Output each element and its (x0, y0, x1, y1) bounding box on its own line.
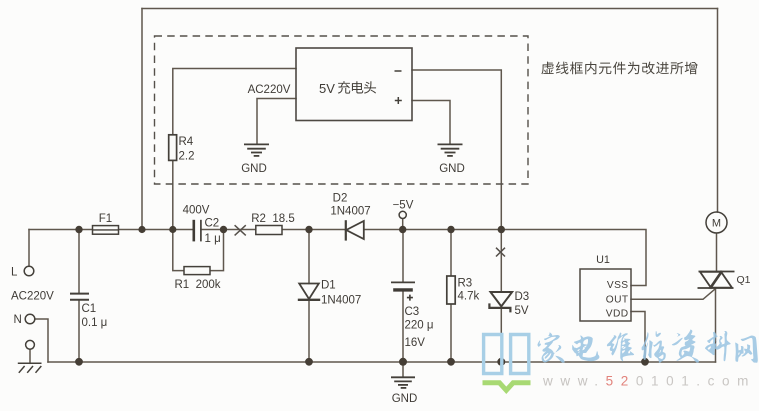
wire triac to bottom rail (715, 288, 717, 362)
wire -5V node drop (402, 219, 404, 229)
wire motor to triac (716, 233, 718, 271)
wire U1 VDD to bottom rail (631, 312, 645, 363)
ground GND1 (charger input side) (244, 144, 269, 156)
svg-text:R4: R4 (179, 136, 194, 148)
IC U1 (580, 269, 631, 321)
cut mark X1 (235, 225, 246, 235)
svg-text:U1: U1 (596, 254, 610, 266)
terminal N (25, 314, 35, 324)
resistor R2 (256, 226, 282, 235)
wire main AC rail (29, 229, 194, 231)
svg-text:N: N (14, 314, 22, 326)
wire D1 branch (308, 230, 310, 363)
wire charger AC220V gnd (257, 99, 296, 144)
resistor R3 (447, 276, 455, 304)
svg-text:C1: C1 (82, 303, 97, 315)
wire L terminal drop (28, 230, 30, 267)
svg-text:VDD: VDD (606, 308, 629, 319)
svg-text:0.1 μ: 0.1 μ (82, 317, 108, 329)
charger module U (5V charger) box (296, 48, 412, 121)
svg-text:D3: D3 (515, 291, 530, 303)
svg-text:D1: D1 (321, 280, 336, 292)
svg-text:OUT: OUT (606, 295, 629, 306)
wire outer loop right (717, 9, 719, 213)
wire C3 branch (402, 230, 404, 363)
capacitor C2 (193, 220, 196, 242)
wire R3 branch (450, 230, 452, 363)
svg-text:5V: 5V (515, 305, 529, 317)
svg-text:VSS: VSS (607, 280, 629, 291)
svg-text:1N4007: 1N4007 (321, 295, 361, 307)
resistor R1 (184, 267, 210, 275)
svg-text:C2: C2 (205, 217, 220, 229)
svg-text:F1: F1 (99, 213, 112, 225)
wire C1 branch (78, 230, 80, 363)
capacitor C1 (70, 294, 89, 300)
diode D1 (299, 284, 319, 300)
svg-text:5V: 5V (319, 81, 335, 96)
svg-text:Q1: Q1 (737, 274, 751, 286)
diode D2 (345, 220, 347, 240)
capacitor C3 (391, 281, 415, 283)
svg-text:GND: GND (392, 393, 418, 405)
svg-text:2.2: 2.2 (179, 150, 195, 162)
svg-text:16V: 16V (405, 337, 426, 349)
zener diode D3 (491, 292, 513, 306)
svg-text:1N4007: 1N4007 (330, 206, 370, 218)
watermark book icon (484, 335, 529, 374)
ground GND3 (391, 377, 415, 388)
svg-text:−5V: −5V (393, 199, 414, 211)
svg-text:R2 18.5: R2 18.5 (251, 213, 294, 225)
cut mark X2 (496, 248, 505, 257)
wire bottom rail (48, 361, 716, 363)
resistor R4 (169, 135, 177, 161)
terminal L (24, 266, 34, 276)
svg-text:GND: GND (241, 163, 267, 175)
svg-text:L: L (11, 267, 18, 279)
watermark text 家电维修资料网 (538, 329, 758, 362)
triac Q1 (698, 272, 735, 289)
wire charger minus output (412, 70, 501, 292)
svg-text:GND: GND (439, 163, 465, 175)
wire N terminal to bottom rail (35, 319, 48, 362)
wire R1 bypass loop (173, 230, 224, 271)
svg-text:1 μ: 1 μ (205, 233, 221, 245)
wire GND3 stub (402, 362, 404, 377)
note text 虚线框内元件为改进所增 (541, 62, 697, 75)
svg-text:D2: D2 (333, 193, 348, 205)
wire charger plus output (412, 101, 450, 144)
svg-text:4.7k: 4.7k (458, 291, 480, 303)
wire D3 lower branch (500, 308, 502, 362)
svg-text:www.520101.com: www.520101.com (542, 374, 756, 389)
svg-text:C3: C3 (405, 306, 420, 318)
motor M (706, 212, 727, 233)
wire main AC rail right of C2 (201, 230, 646, 286)
wire R4 to charger input (173, 69, 296, 230)
charger minus pin label (395, 70, 402, 72)
node -5V (399, 211, 406, 218)
svg-text:AC220V: AC220V (248, 84, 291, 96)
svg-text:R3: R3 (458, 277, 473, 289)
wire earth terminal drop (29, 350, 31, 364)
ground GND2 (charger output side) (438, 144, 463, 156)
watermark green swoosh (483, 383, 531, 391)
svg-text:400V: 400V (183, 205, 210, 217)
charger plus pin label (395, 97, 402, 104)
svg-text:AC220V: AC220V (11, 291, 54, 303)
fuse F1 (93, 226, 119, 235)
svg-text:M: M (712, 218, 721, 230)
earth ground symbol (18, 363, 42, 373)
charger box label 充电头 (338, 81, 376, 93)
dashed improvement box (155, 36, 529, 184)
terminal earth (26, 340, 35, 349)
wire U1 OUT to triac gate (631, 289, 715, 299)
svg-text:220 μ: 220 μ (405, 320, 434, 332)
wire outer loop left (141, 9, 143, 230)
wire outer loop top (142, 8, 718, 10)
svg-text:R1 200k: R1 200k (174, 279, 220, 291)
